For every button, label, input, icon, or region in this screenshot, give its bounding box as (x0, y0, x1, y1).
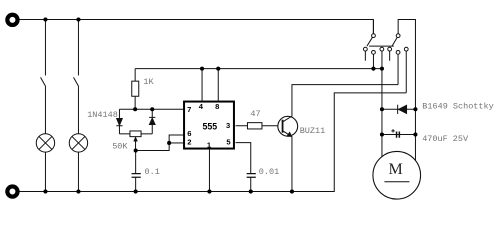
svg-text:2: 2 (187, 138, 191, 147)
svg-text:M: M (388, 161, 402, 178)
svg-text:50K: 50K (112, 141, 128, 151)
svg-text:0.01: 0.01 (259, 167, 279, 177)
svg-text:47: 47 (250, 109, 260, 119)
svg-text:B1649 Schottky: B1649 Schottky (422, 102, 493, 112)
svg-text:0.1: 0.1 (145, 167, 160, 177)
svg-text:7: 7 (187, 105, 191, 114)
svg-text:8: 8 (215, 102, 219, 111)
svg-text:470uF 25V: 470uF 25V (422, 134, 469, 144)
svg-text:1K: 1K (143, 77, 154, 87)
svg-text:BUZ11: BUZ11 (300, 126, 326, 136)
svg-text:3: 3 (226, 121, 230, 130)
svg-text:1N4148: 1N4148 (87, 110, 118, 120)
svg-text:555: 555 (202, 121, 217, 131)
